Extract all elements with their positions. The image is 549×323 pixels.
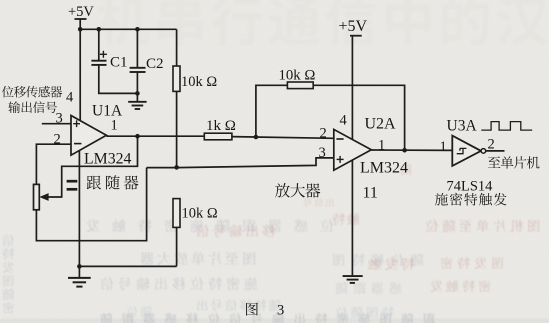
svg-text:U1A: U1A (92, 103, 123, 120)
op-amp U2A triangle (334, 129, 372, 170)
label U3A (447, 118, 478, 135)
label: 跟随器 (follower) (87, 175, 139, 189)
svg-text:LM324: LM324 (360, 160, 408, 177)
resistor R4 10k (feedback) (287, 82, 313, 89)
+5V supply bar terminal (U2A) (350, 35, 362, 37)
svg-text:11: 11 (363, 185, 378, 202)
wire: rail to C1 top (98, 29, 100, 60)
svg-text:1: 1 (111, 118, 118, 134)
pin number 11 (U2A) (363, 185, 378, 202)
svg-text:2: 2 (320, 126, 327, 142)
label C1 (110, 55, 128, 71)
U1A non-inverting + mark (73, 120, 80, 127)
label R2 10k Ω (182, 206, 218, 222)
resistor R3 1k (204, 133, 232, 140)
U1A inverting - mark (74, 143, 81, 145)
svg-text:4: 4 (340, 113, 348, 129)
pot wiper arrow (39, 193, 48, 201)
svg-text:2: 2 (54, 132, 61, 148)
wire: U2A pin 11 to ground (351, 160, 353, 276)
svg-text:U3A: U3A (447, 118, 478, 135)
svg-text:1: 1 (378, 138, 385, 154)
node: C1 to rail (97, 27, 102, 32)
svg-text:4: 4 (66, 90, 74, 106)
svg-text:3: 3 (319, 145, 326, 161)
wire: U3A output (486, 150, 505, 152)
svg-text:10k Ω: 10k Ω (181, 74, 217, 90)
wire: input to U1A pin 3 (42, 123, 71, 125)
label LM324 (U2A) (360, 160, 408, 177)
label: 施密特触发 (Schmitt trigger) (435, 193, 507, 206)
label: 至单片机 (to MCU) (488, 156, 540, 169)
ground symbol (U2A) (343, 276, 363, 283)
wire: +5V down to U1A pin 4 (79, 19, 81, 120)
node: C2 to rail (135, 27, 140, 32)
square wave symbol (481, 122, 532, 131)
node: U2A inverting input junction (254, 135, 259, 140)
resistor R2 10k (lower divider) (173, 199, 180, 228)
label R4 10k Ω (279, 68, 316, 84)
node: U2A output junction (402, 148, 407, 153)
svg-text:C2: C2 (146, 56, 164, 72)
+5V supply label (left) (68, 4, 94, 20)
wire: U1A pin 2 to pot top (36, 144, 71, 184)
+5V supply label (U2A) (339, 18, 368, 35)
wire: bottom ground rail (79, 265, 176, 267)
ground symbol (C1/C2) (128, 102, 146, 109)
svg-text:10k Ω: 10k Ω (279, 68, 316, 84)
wire: feedback from output node down-left to pot wiper (48, 136, 138, 197)
pin number 2 (U3A output) (488, 137, 495, 153)
ground symbol (left rail) (68, 266, 91, 286)
svg-text:10k Ω: 10k Ω (182, 206, 218, 222)
svg-text:U2A: U2A (365, 116, 397, 133)
wire: +5V down to U2A pin 4 (351, 36, 353, 140)
label R3 1k Ω (206, 118, 236, 134)
pin number 2 (U2A) (320, 126, 327, 142)
wire: R2 bottom to ground rail (176, 227, 178, 266)
pin number 2 (U1A) (54, 132, 61, 148)
label R1 10k Ω (181, 74, 217, 90)
svg-text:+5V: +5V (339, 18, 368, 35)
+5V supply bar terminal (left) (75, 18, 87, 20)
U2A inverting - mark (336, 138, 343, 140)
wire: R1 bottom down to divider node (crosses U1A output) (176, 91, 178, 167)
svg-text:1k Ω: 1k Ω (206, 118, 236, 134)
label: 输出信号 (output signal) (8, 101, 57, 113)
label U2A (365, 116, 397, 133)
wire: rail corner down to R1 (176, 29, 178, 66)
U3A inverter bubble (481, 149, 486, 154)
svg-text:C1: C1 (110, 55, 128, 71)
node: ground rail junction (77, 264, 82, 269)
wire: U1A ground pin down to ground rail (78, 151, 80, 267)
caption: 图 3 (246, 303, 284, 319)
wire: C1 bottom down and over to C2 bottom (99, 65, 138, 94)
pin number 4 (U1A) (66, 90, 74, 106)
U1A ground-pin marker bars (67, 181, 78, 189)
wire: R3 to U2A pin 2 (232, 137, 334, 139)
svg-text:LM324: LM324 (84, 151, 131, 168)
label 74LS14 (447, 179, 494, 195)
label C2 (146, 56, 164, 72)
label: 放大器 (amplifier) (275, 183, 320, 198)
node: U1A output junction (135, 134, 140, 139)
label LM324 (U1A) (84, 151, 131, 168)
pin number 1 (U1A output) (111, 118, 118, 134)
svg-text:1: 1 (440, 139, 447, 155)
svg-text:3: 3 (277, 303, 284, 319)
pin number 3 (U2A) (319, 145, 326, 161)
wire: rail to C2 top (136, 29, 138, 67)
pin number 3 (U1A) (56, 111, 63, 127)
pin number 1 (U2A output) (378, 138, 385, 154)
wire: +5V top rail (80, 28, 176, 30)
wire: pot bottom down and right to divider mid branch (36, 168, 146, 241)
capacitor C1 (electrolytic) (91, 51, 107, 65)
wire: U1A output to R3 (106, 135, 204, 137)
wire: divider mid to U2A pin 3 (147, 158, 334, 168)
wire: U2A output to U3A input (371, 149, 452, 151)
pin number 1 (U3A input) (440, 139, 447, 155)
label: 位移传感器 (displacement sensor) (2, 86, 62, 98)
U2A non-inverting + mark (337, 156, 344, 163)
potentiometer RP body (34, 184, 40, 209)
Schmitt trigger U3A triangle (452, 136, 481, 166)
node: C1/C2 bottom junction (135, 91, 140, 96)
label U1A (92, 103, 123, 120)
U3A hysteresis mark (457, 148, 467, 153)
resistor R1 10k (upper divider) (173, 66, 180, 91)
wire: U2A feedback loop (256, 85, 405, 150)
bleed-through page title (faint) (97, 0, 548, 46)
node: +5V rail junction (78, 27, 83, 32)
wire: C2 bottom to ground (136, 72, 138, 101)
bleed-through body text (faint) (0, 164, 549, 323)
capacitor C2 (130, 68, 146, 72)
node: divider midpoint (174, 165, 179, 170)
svg-text:+5V: +5V (68, 4, 94, 20)
svg-text:74LS14: 74LS14 (447, 179, 494, 195)
op-amp U1A triangle (71, 116, 106, 156)
pin number 4 (U2A) (340, 113, 348, 129)
svg-text:3: 3 (56, 111, 63, 127)
